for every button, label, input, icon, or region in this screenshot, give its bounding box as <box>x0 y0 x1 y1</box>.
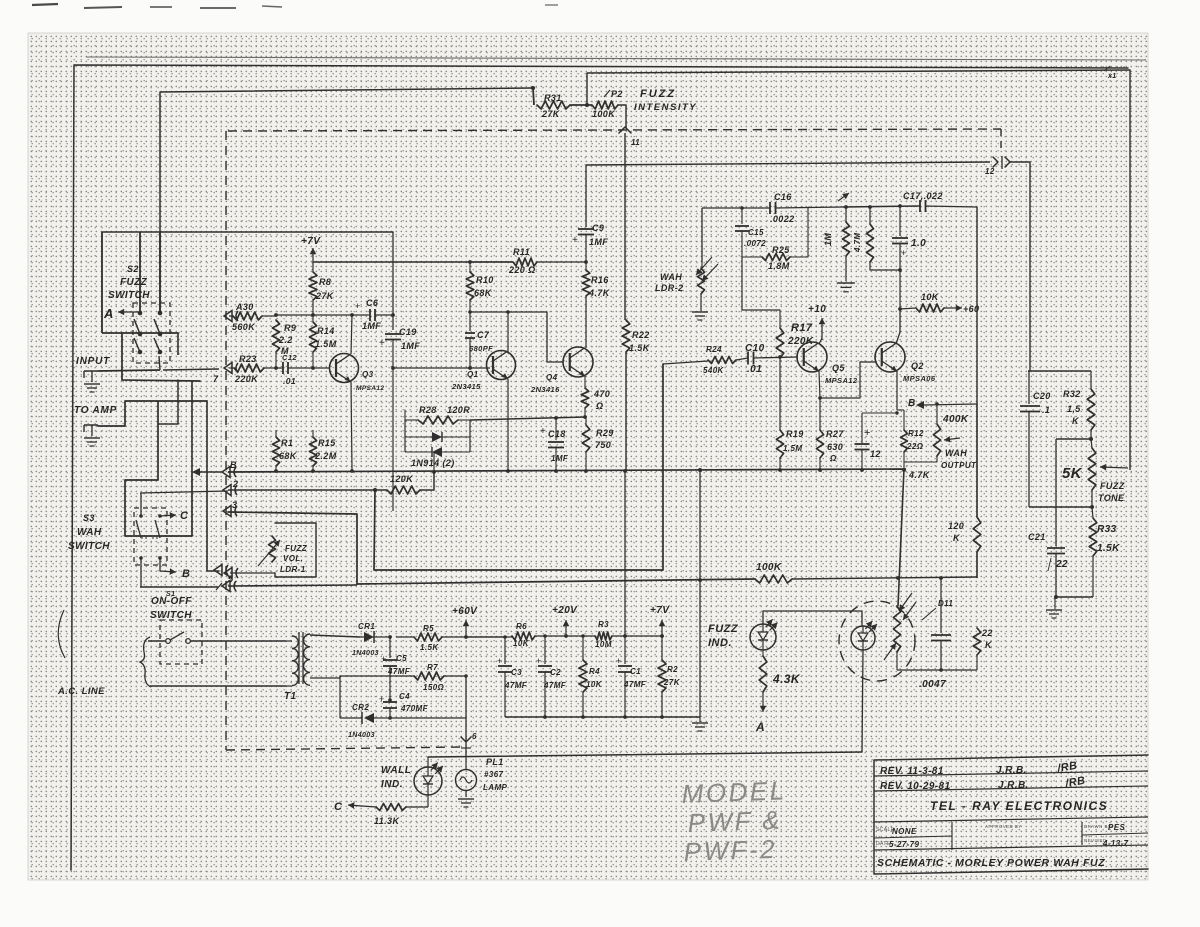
svg-text:R9: R9 <box>284 323 296 333</box>
wire rail 60 <box>466 636 512 638</box>
node dot R31 left <box>531 86 535 90</box>
wire staircase box-bottom <box>158 380 178 424</box>
svg-text:R16: R16 <box>591 275 609 285</box>
wire net x393 low <box>392 368 394 511</box>
svg-text:FUZZ: FUZZ <box>708 623 739 635</box>
svg-text:R12: R12 <box>908 429 924 438</box>
svg-text:TO AMP: TO AMP <box>74 405 117 416</box>
svg-text:27K: 27K <box>315 291 335 301</box>
wire P2 to node 11 <box>618 105 626 128</box>
svg-text:400K: 400K <box>942 414 969 425</box>
wire base dots <box>274 366 315 370</box>
svg-text:R15: R15 <box>318 438 336 448</box>
svg-text:CR1: CR1 <box>358 622 375 631</box>
svg-text:11: 11 <box>631 138 640 147</box>
svg-text:1MF: 1MF <box>362 321 381 331</box>
resistor 120K fuzz <box>373 470 436 494</box>
power +10 <box>808 304 826 340</box>
wire fb rail <box>468 310 563 362</box>
wire Q2 collector top <box>896 309 900 344</box>
svg-text:2N3415: 2N3415 <box>451 382 481 391</box>
wire net 2 <box>228 489 387 491</box>
svg-text:68K: 68K <box>474 288 493 298</box>
svg-text:+: + <box>616 656 622 666</box>
diode CR2 <box>340 676 390 739</box>
svg-text:P2: P2 <box>611 89 623 99</box>
led FUZZ-IND <box>750 619 778 650</box>
wire gnd rail <box>505 715 700 719</box>
svg-text:7: 7 <box>213 374 219 384</box>
svg-text:.1: .1 <box>1042 405 1050 415</box>
wire S1 out <box>140 587 218 598</box>
wire net 11 vertical <box>625 133 626 472</box>
svg-text:150Ω: 150Ω <box>423 683 445 692</box>
svg-text:WAH: WAH <box>945 448 967 458</box>
svg-text:120K: 120K <box>390 474 414 484</box>
switch S2 solid box <box>122 333 200 381</box>
svg-text:+: + <box>864 427 871 439</box>
svg-text:LAMP: LAMP <box>483 783 508 792</box>
title small row <box>876 823 1129 849</box>
svg-text:WAH: WAH <box>77 527 102 538</box>
svg-text:FUZZ: FUZZ <box>285 544 308 553</box>
svg-text:MPSA12: MPSA12 <box>825 376 858 385</box>
svg-text:C: C <box>180 510 189 522</box>
border top thin line <box>86 57 1146 60</box>
arrow node B right <box>908 398 977 409</box>
svg-text:22: 22 <box>1055 559 1068 570</box>
svg-text:10M: 10M <box>595 640 612 649</box>
resistor R29 <box>582 417 614 470</box>
resistor R14 <box>309 315 336 368</box>
svg-text:C9: C9 <box>592 223 604 233</box>
dashed box right stub <box>1000 129 1002 149</box>
wire net2 left end <box>140 491 228 516</box>
svg-text:540K: 540K <box>703 366 725 375</box>
title rev1 <box>880 760 1078 777</box>
paper edge marks <box>32 4 558 8</box>
led D11b <box>851 621 877 650</box>
svg-text:C3: C3 <box>511 668 522 677</box>
svg-text:+20V: +20V <box>552 605 578 616</box>
connector 5b <box>216 581 236 592</box>
dashed box left <box>225 131 227 750</box>
resistor R23 <box>213 354 283 384</box>
bus dots <box>274 469 627 473</box>
wire c16 row <box>843 204 920 209</box>
wire Q5 base node <box>778 355 782 430</box>
svg-text:R14: R14 <box>317 326 335 336</box>
svg-text:R6: R6 <box>516 622 527 631</box>
svg-text:+: + <box>355 301 361 311</box>
connector 5 <box>214 565 238 585</box>
wire vertical input down <box>207 401 219 571</box>
svg-text:10K: 10K <box>513 639 530 648</box>
resistor 470ohm <box>581 376 610 417</box>
svg-text:K: K <box>953 533 961 543</box>
svg-text:22Ω: 22Ω <box>906 442 924 451</box>
svg-text:1.5M: 1.5M <box>315 339 337 349</box>
arrow node C <box>160 510 189 522</box>
resistor R32 <box>1063 371 1095 441</box>
svg-text:R10: R10 <box>476 275 494 285</box>
svg-text:22: 22 <box>981 628 993 638</box>
svg-text:SWITCH: SWITCH <box>68 541 110 552</box>
svg-text:1N4003: 1N4003 <box>352 650 379 657</box>
svg-text:1.5K: 1.5K <box>629 343 651 353</box>
capacitor C7 <box>465 312 493 368</box>
svg-text:S2: S2 <box>127 264 139 274</box>
resistor R7 <box>414 663 466 718</box>
svg-text:4-13-7: 4-13-7 <box>1102 839 1129 848</box>
resistor R31 <box>537 93 570 119</box>
svg-text:Q5: Q5 <box>832 363 845 373</box>
svg-text:C5: C5 <box>396 654 407 663</box>
svg-text:10K: 10K <box>921 292 940 302</box>
svg-text:C1: C1 <box>630 667 641 676</box>
resistor R5 <box>396 624 505 652</box>
svg-text:C4: C4 <box>399 692 410 701</box>
wire net x393 <box>392 232 394 330</box>
resistor R22 <box>622 320 651 353</box>
wire Q2 emitter <box>896 371 898 410</box>
resistor R27 <box>816 429 844 472</box>
svg-text:WALL: WALL <box>381 765 411 776</box>
svg-text:2.2: 2.2 <box>278 335 293 345</box>
svg-text:C17,.022: C17,.022 <box>903 191 943 201</box>
svg-text:1.5M: 1.5M <box>783 444 802 453</box>
svg-text:WAH: WAH <box>660 272 682 282</box>
handwritten MODEL PWF <box>681 775 787 867</box>
svg-text:.0022: .0022 <box>770 214 795 224</box>
svg-text:K: K <box>985 640 993 650</box>
svg-text:B: B <box>230 460 237 470</box>
svg-text:.0072: .0072 <box>744 239 766 248</box>
svg-text:1MF: 1MF <box>401 341 420 351</box>
connector arrow 11 <box>619 127 640 147</box>
svg-text:1,5: 1,5 <box>1067 404 1081 414</box>
capacitor C16 <box>770 192 843 224</box>
capacitor C10 <box>745 343 798 375</box>
svg-text:2: 2 <box>232 479 238 489</box>
switch S1 dashed box <box>160 620 202 664</box>
arrow node B2 <box>160 558 190 580</box>
wire Q1 collector <box>507 312 509 352</box>
switch S3 contacts <box>136 514 162 560</box>
svg-text:120: 120 <box>948 521 964 531</box>
wire Q3 emitter <box>351 382 352 470</box>
wire rect out <box>388 674 468 720</box>
border outline <box>71 65 1128 870</box>
svg-text:R19: R19 <box>786 429 804 439</box>
wire emitter rail <box>470 415 587 420</box>
svg-text:R17: R17 <box>791 322 813 334</box>
svg-text:2.2M: 2.2M <box>314 451 337 461</box>
svg-text:+: + <box>901 248 907 258</box>
svg-text:A.C. LINE: A.C. LINE <box>57 686 105 697</box>
svg-text:5: 5 <box>228 574 234 584</box>
wire rail 12 <box>586 162 990 165</box>
wire net B <box>228 468 906 472</box>
svg-text:J.R.B.: J.R.B. <box>998 780 1029 791</box>
power +20V <box>552 605 578 638</box>
svg-text:Ω: Ω <box>829 454 837 463</box>
svg-text:MPSA06: MPSA06 <box>903 374 936 383</box>
wire ac bottom <box>150 685 286 687</box>
wire Q5 emitter <box>819 362 875 398</box>
svg-text:470: 470 <box>593 389 610 399</box>
switch S3 dashed box <box>134 508 167 565</box>
svg-text:5-27-79: 5-27-79 <box>889 840 920 849</box>
ground supply <box>692 717 708 731</box>
photoresistor WAH LDR-2 <box>655 257 718 294</box>
border tick x1 <box>1104 66 1117 80</box>
svg-text:Q2: Q2 <box>911 361 924 371</box>
svg-text:FUZZ: FUZZ <box>640 88 676 100</box>
capacitor C4 <box>379 692 429 718</box>
resistor R1 <box>272 368 297 470</box>
svg-text:R23: R23 <box>239 354 257 364</box>
svg-text:6: 6 <box>472 732 477 741</box>
svg-text:+: + <box>572 235 578 246</box>
wire switch feed left <box>139 232 141 313</box>
svg-text:D11: D11 <box>938 599 953 608</box>
resistor 120K right <box>948 404 981 578</box>
svg-text:SWITCH: SWITCH <box>108 290 150 301</box>
potentiometer 5K <box>1062 439 1128 509</box>
svg-text:REV. 10-29-81: REV. 10-29-81 <box>880 781 950 792</box>
label TO AMP <box>74 405 117 416</box>
svg-text:+60V: +60V <box>452 606 478 617</box>
to-amp jack <box>84 425 100 446</box>
capacitor C20 <box>1020 371 1051 507</box>
resistor R9 <box>272 320 296 368</box>
svg-text:+: + <box>540 426 546 437</box>
resistor R12 <box>897 410 924 472</box>
capacitor C13 12MF <box>855 413 881 472</box>
svg-text:12: 12 <box>870 449 881 459</box>
switch S1 contacts <box>166 632 191 643</box>
svg-text:560K: 560K <box>232 322 256 332</box>
capacitor 0047 <box>919 578 951 690</box>
svg-text:R29: R29 <box>596 428 614 438</box>
wire R17 top <box>742 257 780 310</box>
svg-text:SCHEMATIC - MORLEY POWER WAH F: SCHEMATIC - MORLEY POWER WAH FUZ <box>877 857 1105 869</box>
svg-text:.01: .01 <box>283 376 296 386</box>
switch S2 dashed box <box>133 303 170 363</box>
svg-text:11.3K: 11.3K <box>374 816 400 826</box>
resistor R15 <box>309 368 336 470</box>
svg-text:LDR-2: LDR-2 <box>655 283 684 293</box>
connector 2 <box>223 479 238 496</box>
title company <box>930 799 1108 813</box>
svg-text:IND.: IND. <box>708 637 732 649</box>
svg-text:APPROVED BY: APPROVED BY <box>985 824 1022 829</box>
connector B <box>222 460 237 478</box>
svg-text:47MF: 47MF <box>504 681 528 690</box>
svg-text:1MF: 1MF <box>589 237 608 247</box>
resistor R16 <box>582 262 611 348</box>
dashed box top <box>228 129 1001 131</box>
resistor R4 <box>579 634 603 717</box>
svg-text:+: + <box>381 654 387 664</box>
svg-text:680PF: 680PF <box>469 344 493 353</box>
capacitor C15 <box>735 206 766 257</box>
svg-text:R8: R8 <box>319 277 331 287</box>
svg-text:C19: C19 <box>399 327 417 337</box>
svg-text:1N914 (2): 1N914 (2) <box>411 458 455 468</box>
wire lamp rail <box>428 752 862 757</box>
dashed circle D11 <box>839 601 915 681</box>
lamp PL1 <box>456 757 508 807</box>
wire input box rail <box>102 231 393 233</box>
svg-text:A30: A30 <box>235 302 254 312</box>
potentiometer P2 <box>587 73 623 119</box>
svg-text:C: C <box>334 801 343 813</box>
capacitor C3 <box>497 635 528 717</box>
wire rail 262 <box>313 261 513 263</box>
svg-text:.01: .01 <box>747 364 762 375</box>
wire tone wiper <box>1129 70 1131 470</box>
ground filter <box>837 283 855 292</box>
svg-text:x1: x1 <box>1107 73 1117 80</box>
svg-text:R33: R33 <box>1097 524 1117 535</box>
svg-text:TONE: TONE <box>1098 493 1125 503</box>
photoresistor D11 <box>884 593 953 670</box>
inner corner line <box>160 88 533 313</box>
wire switch out <box>163 369 219 370</box>
svg-text:CR2: CR2 <box>352 703 369 712</box>
transistor Q2 <box>875 342 936 383</box>
wire emitter row <box>862 411 899 414</box>
svg-text:A: A <box>755 720 765 734</box>
svg-text:68K: 68K <box>279 451 298 461</box>
wire rail 315 <box>274 313 368 317</box>
wire ac top <box>148 640 286 642</box>
svg-text:47MF: 47MF <box>623 680 647 689</box>
svg-text:C7: C7 <box>477 330 490 340</box>
svg-text:#367: #367 <box>484 770 504 779</box>
resistor R11 <box>468 247 588 275</box>
capacitor C19 <box>379 327 420 368</box>
svg-text:R11: R11 <box>513 247 530 257</box>
node C6 out <box>391 313 395 317</box>
resistor R8 <box>309 262 335 315</box>
node CR1 out <box>388 635 392 639</box>
wire Q5 collector <box>819 338 822 344</box>
svg-text:PWF-2: PWF-2 <box>683 834 777 867</box>
svg-text:MPSA12: MPSA12 <box>356 385 384 392</box>
title name <box>877 857 1105 869</box>
wire rail 20 <box>535 635 595 637</box>
capacitor C2 <box>536 634 567 717</box>
svg-text:C21: C21 <box>1028 532 1046 542</box>
wire tone box left <box>1029 506 1091 508</box>
wire tone box top <box>1028 370 1091 372</box>
svg-text:R4: R4 <box>589 667 600 676</box>
svg-text:Q4: Q4 <box>546 373 558 382</box>
svg-text:+7V: +7V <box>650 605 670 616</box>
svg-text:VOL.: VOL. <box>283 554 303 563</box>
label S2 FUZZ SWITCH <box>108 264 150 301</box>
svg-text:R27: R27 <box>826 429 844 439</box>
photoresistor FUZZ VOL LDR-1 <box>258 536 308 574</box>
svg-text:C10: C10 <box>745 343 765 354</box>
resistor 11.3K <box>334 795 428 826</box>
svg-text:Q1: Q1 <box>467 370 479 379</box>
wire sec bottom <box>310 676 414 678</box>
svg-text:J.R.B.: J.R.B. <box>996 765 1027 776</box>
svg-text:C2: C2 <box>550 668 561 677</box>
wire fuzz box <box>763 611 862 625</box>
svg-text:1N4003: 1N4003 <box>348 732 375 739</box>
svg-text:1.5K: 1.5K <box>420 643 439 652</box>
svg-text:OUTPUT: OUTPUT <box>941 461 977 470</box>
resistor 10K 60 <box>898 292 979 314</box>
resistor R3 <box>595 620 612 649</box>
svg-text:R5: R5 <box>423 624 434 633</box>
wire net7 vert <box>624 472 626 636</box>
power +7V top <box>301 236 321 262</box>
resistor R24 <box>663 345 748 375</box>
label node A <box>755 720 765 734</box>
wire switch feed mid <box>159 232 161 313</box>
wire input jack to switch <box>98 356 160 371</box>
wire Q3 base link <box>391 366 490 370</box>
svg-text:PL1: PL1 <box>486 757 504 767</box>
power +7V <box>650 605 670 638</box>
svg-text:C20: C20 <box>1033 391 1051 401</box>
resistor R2 <box>658 634 681 717</box>
capacitor C5 <box>381 637 411 700</box>
wire D11 feed <box>898 469 931 606</box>
wire Q3 collector <box>351 315 352 354</box>
connector 3 <box>223 500 237 517</box>
svg-text:47MF: 47MF <box>543 681 567 690</box>
svg-text:B: B <box>908 398 916 409</box>
svg-text:MODEL: MODEL <box>681 775 787 809</box>
wire 5 lower <box>228 585 357 586</box>
svg-text:Q3: Q3 <box>362 370 374 379</box>
svg-text:27K: 27K <box>541 109 561 119</box>
transistor Q4 <box>530 347 593 394</box>
svg-text:220K: 220K <box>234 374 259 384</box>
transistor Q5 <box>797 342 858 385</box>
wire input box left <box>102 232 122 333</box>
resistor R19 <box>776 429 803 472</box>
svg-text:A: A <box>103 306 114 321</box>
svg-text:Ω: Ω <box>595 401 603 411</box>
svg-text:+: + <box>536 656 542 666</box>
resistor R6 <box>512 622 535 648</box>
LDR-1 box <box>275 523 316 577</box>
svg-text:+: + <box>379 694 385 704</box>
svg-text:R7: R7 <box>427 663 438 672</box>
label FUZZ IND <box>708 623 739 649</box>
label INPUT <box>76 356 110 367</box>
wire box 208 <box>702 208 770 262</box>
svg-text:+60: +60 <box>963 304 979 314</box>
transformer T1 <box>284 632 310 702</box>
capacitor C12 <box>282 353 329 386</box>
resistor 4.3K <box>759 650 801 712</box>
label AC LINE <box>57 686 105 697</box>
title block frame <box>874 755 1148 874</box>
svg-text:R24: R24 <box>706 345 722 354</box>
svg-text:.0047: .0047 <box>919 679 946 690</box>
svg-text:4.7K: 4.7K <box>588 288 611 298</box>
connector arrows 12 <box>985 156 1010 176</box>
